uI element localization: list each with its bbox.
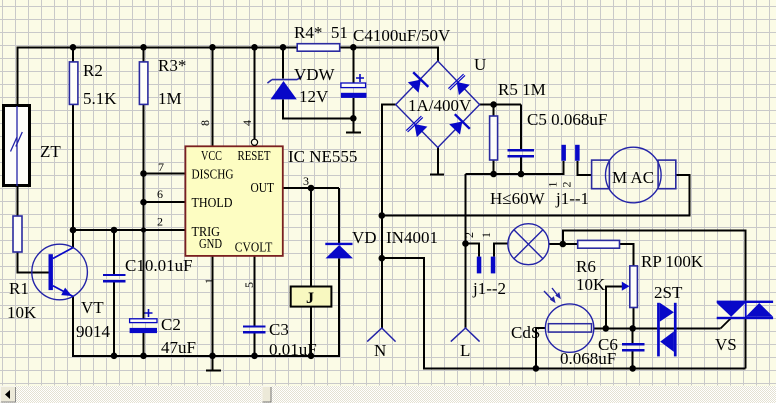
svg-text:12V: 12V [299,87,329,106]
svg-text:1: 1 [546,182,560,188]
svg-text:47uF: 47uF [161,338,196,357]
svg-text:1M: 1M [158,89,182,108]
svg-text:1: 1 [202,278,216,284]
svg-text:10K: 10K [576,275,606,294]
svg-text:3: 3 [303,174,309,188]
svg-text:0.01uF: 0.01uF [269,340,317,359]
svg-text:2: 2 [560,182,574,188]
svg-text:CVOLT: CVOLT [235,240,273,255]
svg-text:R4* 51: R4* 51 [294,23,348,42]
svg-text:10K: 10K [7,303,37,322]
svg-text:1: 1 [479,232,493,238]
svg-text:8: 8 [198,120,212,126]
svg-text:L: L [460,341,470,360]
svg-text:2: 2 [462,232,476,238]
svg-text:CdS: CdS [511,323,540,342]
svg-text:ZT: ZT [40,142,61,161]
svg-text:C4100uF/50V: C4100uF/50V [353,26,451,45]
svg-text:VCC: VCC [201,148,222,163]
svg-text:J: J [306,290,314,307]
svg-text:C3: C3 [269,320,289,339]
svg-text:0.068uF: 0.068uF [560,349,616,368]
svg-text:N: N [374,341,386,360]
svg-text:OUT: OUT [251,180,275,195]
svg-text:IC NE555: IC NE555 [288,147,357,166]
svg-text:5: 5 [242,282,256,288]
svg-text:2: 2 [157,215,163,229]
svg-text:j1--1: j1--1 [555,189,589,208]
svg-text:H≤60W: H≤60W [490,189,546,208]
svg-text:THOLD: THOLD [192,195,233,210]
svg-text:C2: C2 [161,315,181,334]
svg-text:VDW: VDW [294,65,336,84]
svg-text:5.1K: 5.1K [83,89,117,108]
svg-text:7: 7 [158,160,164,174]
svg-text:VT: VT [81,298,104,317]
svg-text:C10.01uF: C10.01uF [125,256,193,275]
svg-text:RP 100K: RP 100K [641,252,704,271]
svg-text:VD: VD [352,228,377,247]
svg-text:6: 6 [157,187,163,201]
svg-text:R1: R1 [9,279,29,298]
svg-text:2ST: 2ST [654,283,683,302]
svg-text:VS: VS [715,335,737,354]
svg-text:DISCHG: DISCHG [192,167,234,182]
svg-text:IN4001: IN4001 [386,228,438,247]
svg-text:1A/400V: 1A/400V [408,96,472,115]
svg-text:GND: GND [199,236,222,251]
svg-text:U: U [474,55,486,74]
svg-text:RESET: RESET [238,148,272,163]
svg-text:R6: R6 [576,257,596,276]
svg-text:C5 0.068uF: C5 0.068uF [527,110,607,129]
svg-text:R5 1M: R5 1M [498,80,546,99]
svg-text:R3*: R3* [158,56,186,75]
svg-text:j1--2: j1--2 [472,279,506,298]
svg-text:M AC: M AC [612,168,654,187]
svg-text:R2: R2 [83,61,103,80]
svg-text:9014: 9014 [76,322,111,341]
svg-text:4: 4 [240,120,254,126]
